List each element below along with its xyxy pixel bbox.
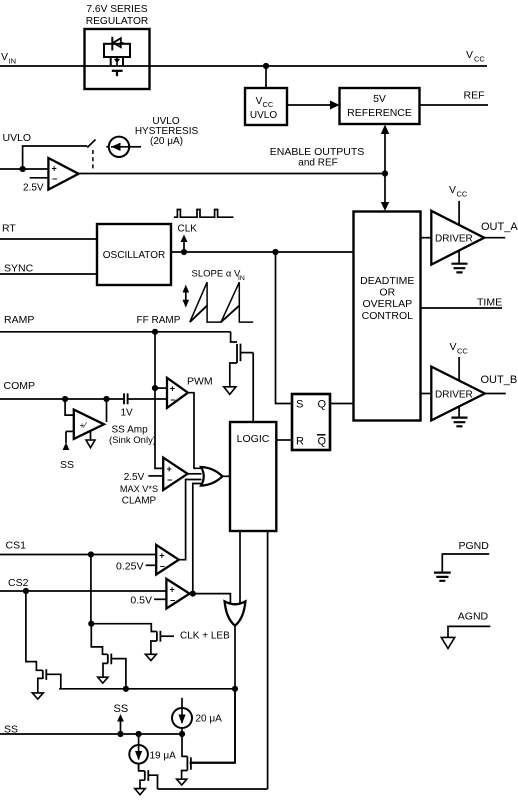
comparator U15 (0.5V): [166, 579, 189, 609]
comparator U8 (2.5V max clamp): [163, 458, 187, 490]
label: UVLO HYSTERESIS (20 uA): [135, 116, 199, 147]
junction: [23, 588, 29, 594]
svg-text:SYNC: SYNC: [4, 263, 34, 275]
label: 2.5V MAX V*S CLAMP: [120, 472, 158, 507]
dashed control line: [92, 150, 94, 171]
svg-text:and REF: and REF: [298, 158, 337, 169]
ground arrow (Q1 source): [224, 387, 236, 395]
svg-text:REFERENCE: REFERENCE: [347, 107, 412, 119]
svg-text:Q: Q: [318, 436, 327, 448]
VCC stub driver B: [458, 357, 460, 381]
wire LOGIC to R: [276, 439, 292, 441]
junction: [136, 731, 142, 737]
VCC UVLO block U2: [245, 88, 287, 125]
svg-text:S: S: [296, 399, 303, 411]
junction: [117, 731, 123, 737]
wire CS2 comp output up to OR: [190, 484, 202, 594]
ground arrow (Q5): [177, 779, 187, 785]
node VCC (top right): [466, 49, 485, 64]
svg-text:2.5V: 2.5V: [23, 182, 44, 193]
wire UVLO input: [0, 168, 48, 170]
wire 2.5V dash: [148, 475, 163, 477]
svg-text:OVERLAP: OVERLAP: [362, 298, 412, 310]
svg-text:SS: SS: [114, 703, 129, 715]
wire SS to lower input: [66, 430, 74, 432]
svg-text:−: −: [170, 395, 175, 405]
driver B U13: [431, 367, 485, 421]
wire VIN/VCC rail: [0, 65, 487, 67]
current source I3 (19uA): [129, 734, 148, 770]
oscillator block U5: [97, 224, 171, 285]
wire CLK to S input: [276, 252, 293, 404]
transistor Q5 (SS clamp FET): [182, 689, 235, 779]
wire LOGIC to OR2 right input: [239, 531, 241, 607]
transistor Q6 (19uA mirror FET): [139, 764, 158, 789]
junction PWM +: [152, 385, 158, 391]
svg-text:AGND: AGND: [458, 611, 489, 623]
wire to CLK+LEB FET: [91, 624, 157, 632]
wire PWM output to OR gate: [188, 393, 202, 469]
junction: [272, 249, 278, 255]
node VCC (driver A): [449, 184, 468, 199]
svg-text:R: R: [296, 436, 304, 448]
or-gate G1: [201, 467, 222, 486]
wire TIME: [421, 307, 503, 309]
svg-text:CLK + LEB: CLK + LEB: [180, 630, 230, 641]
ground arrow (Q2): [145, 654, 156, 660]
svg-text:UVLO: UVLO: [3, 132, 32, 144]
svg-text:CS2: CS2: [8, 577, 29, 589]
svg-text:OR: OR: [379, 287, 395, 299]
junction node on enable line: [382, 170, 388, 176]
sawtooth waveform: [190, 282, 253, 322]
CLK arrow: [183, 241, 185, 252]
wire hysteresis branch: [23, 146, 88, 169]
wire enable vertical (double arrow between 5V REF and deadtime box): [384, 130, 386, 206]
junction: [62, 396, 68, 402]
svg-text:LOGIC: LOGIC: [237, 433, 270, 445]
wire FF RAMP vertical: [155, 332, 163, 469]
svg-text:FF RAMP: FF RAMP: [137, 315, 181, 326]
svg-text:SS: SS: [60, 459, 74, 471]
svg-text:−: −: [52, 174, 57, 184]
svg-text:TIME: TIME: [477, 297, 502, 309]
wire 0.5V dash: [154, 598, 166, 600]
op-amp U7 (SS amp): [65, 399, 106, 439]
wire SYNC: [0, 273, 97, 275]
SS arrow (up): [63, 431, 70, 450]
SS arrow (internal): [117, 714, 124, 734]
label: SS Amp (Sink Only): [109, 425, 156, 447]
svg-text:CLAMP: CLAMP: [122, 496, 157, 507]
svg-text:19 μA: 19 μA: [150, 751, 177, 762]
svg-text:DRIVER: DRIVER: [435, 234, 473, 245]
svg-text:PWM: PWM: [187, 375, 213, 387]
logic block U9: [230, 422, 276, 531]
svg-text:V: V: [466, 49, 473, 61]
ground arrow (Q3): [32, 693, 43, 699]
wire CS1 branch down: [90, 555, 92, 624]
svg-text:CC: CC: [457, 190, 468, 199]
wire AGND: [448, 626, 490, 637]
junction: [181, 249, 187, 255]
svg-text:V: V: [450, 341, 457, 353]
junction: [88, 551, 94, 557]
pass transistor symbol inside regulator: [104, 37, 130, 76]
ground arrow (AGND): [441, 637, 454, 648]
wire OUT_A: [484, 237, 505, 239]
svg-text:V: V: [1, 51, 8, 63]
wire 0.25V dash: [146, 564, 157, 566]
svg-text:+: +: [170, 585, 175, 595]
svg-text:CS1: CS1: [6, 540, 27, 552]
wire ground rail: [59, 688, 235, 690]
svg-text:SS Amp: SS Amp: [112, 425, 149, 436]
svg-text:0.25V: 0.25V: [116, 560, 143, 572]
junction rail / OR2 output: [232, 686, 238, 692]
junction Q4 gate to rail: [123, 686, 129, 692]
svg-text:7.6V SERIES: 7.6V SERIES: [86, 4, 147, 15]
junction FF RAMP: [152, 329, 158, 335]
wire oscillator output to deadtime: [171, 251, 354, 253]
wire LOGIC bottom long vertical: [267, 531, 269, 789]
current source I2 (20uA): [172, 698, 192, 734]
wire bottom rail: [158, 788, 268, 790]
wire to PWM +: [155, 387, 167, 389]
comparator U4 (UVLO 2.5V): [48, 158, 78, 190]
ground (driver A): [451, 251, 467, 273]
VCC stub driver A: [458, 201, 460, 225]
wire RAMP: [0, 331, 231, 333]
svg-text:PGND: PGND: [459, 540, 490, 552]
wire enable output line: [79, 173, 385, 175]
regulator U1 box: [85, 29, 150, 89]
transistor Q2 (CLK+LEB blanking FET): [151, 631, 174, 655]
wire VCC-UVLO to 5V reference (with arrow): [287, 104, 331, 106]
wire Q1 gate to LOGIC: [252, 353, 254, 422]
transistor Q1 (ramp discharge FET): [230, 332, 253, 387]
svg-text:+: +: [167, 464, 172, 474]
ground arrow under SS amp: [86, 432, 95, 448]
svg-text:REF: REF: [464, 90, 485, 102]
junction: [179, 731, 185, 737]
junction mirror node: [88, 621, 94, 627]
wire COMP: [0, 398, 124, 400]
svg-text:UVLO: UVLO: [250, 110, 277, 121]
wire OR2 output down: [190, 626, 236, 763]
capacitor C1 (1V offset): [124, 393, 167, 404]
junction CS2 comp output: [190, 591, 196, 597]
svg-text:OSCILLATOR: OSCILLATOR: [103, 250, 165, 261]
junction: [103, 396, 109, 402]
flip-flop U10: [292, 394, 330, 450]
wire RT: [0, 238, 97, 240]
svg-text:CLK: CLK: [178, 223, 198, 234]
wire REF output: [420, 104, 489, 106]
wire OUT_B: [485, 393, 506, 395]
wire CS2: [0, 590, 166, 592]
svg-text:+: +: [170, 384, 175, 394]
label: 7.6V SERIES REGULATOR: [86, 4, 148, 27]
node VCC (driver B): [450, 341, 469, 356]
driver A U12: [431, 211, 484, 265]
junction node on VCC rail: [263, 63, 269, 69]
ground (driver B): [451, 407, 467, 427]
wire 2.5V to inverting input: [30, 177, 49, 179]
or-gate G2 (pointing down): [225, 601, 246, 625]
svg-text:DEADTIME: DEADTIME: [360, 275, 414, 287]
node VIN: [1, 51, 16, 66]
current source I1 (UVLO hysteresis 20uA): [106, 137, 141, 157]
svg-text:Q: Q: [318, 399, 327, 411]
svg-text:RAMP: RAMP: [4, 314, 34, 326]
svg-text:MAX V*S: MAX V*S: [120, 484, 158, 494]
svg-text:REGULATOR: REGULATOR: [86, 16, 148, 27]
label: SLOPE a VIN: [192, 269, 245, 282]
switch blade: [87, 140, 95, 148]
wire clamp output: [188, 473, 202, 475]
svg-text:IN: IN: [238, 275, 245, 282]
svg-text:20 μA: 20 μA: [196, 714, 223, 725]
svg-text:DRIVER: DRIVER: [435, 390, 473, 401]
transistor Q3 (CS2 pulldown FET): [26, 591, 61, 693]
svg-text:CC: CC: [474, 55, 485, 64]
svg-text:SLOPE α V: SLOPE α V: [192, 269, 241, 280]
svg-text:CC: CC: [457, 347, 468, 356]
svg-text:5V: 5V: [373, 93, 386, 105]
junction: [20, 166, 26, 172]
wire CS1 comp output to OR: [179, 480, 202, 560]
svg-text:−: −: [160, 562, 165, 572]
wire rail to VCC-UVLO: [265, 66, 267, 88]
svg-text:IN: IN: [9, 57, 17, 66]
svg-text:2.5V: 2.5V: [124, 472, 145, 483]
svg-text:0.5V: 0.5V: [130, 594, 152, 606]
5V reference block U3: [340, 88, 420, 124]
svg-text:+: +: [159, 551, 164, 561]
svg-text:COMP: COMP: [4, 380, 36, 392]
clock pulse waveform: [174, 210, 234, 218]
svg-text:CONTROL: CONTROL: [362, 310, 413, 322]
svg-text:−: −: [170, 596, 175, 606]
svg-text:(Sink Only): (Sink Only): [109, 435, 156, 446]
svg-text:ENABLE OUTPUTS: ENABLE OUTPUTS: [270, 146, 365, 158]
svg-text:CC: CC: [263, 100, 274, 109]
wire PGND: [442, 554, 489, 572]
wire SS: [0, 733, 182, 735]
slope double arrow: [183, 285, 190, 308]
ground arrow (Q6): [135, 789, 145, 795]
svg-text:−: −: [167, 475, 172, 485]
svg-text:RT: RT: [2, 223, 16, 235]
comparator U6 (PWM): [167, 378, 188, 408]
wire CS1: [0, 554, 156, 556]
wire Q to deadtime: [330, 403, 354, 405]
deadtime block U11: [354, 212, 421, 421]
wire VIN rail through regulator: [85, 65, 150, 67]
svg-text:+: +: [52, 164, 57, 174]
label: ENABLE OUTPUTS and REF: [270, 146, 365, 169]
comparator U14 (0.25V): [156, 545, 179, 575]
wire deadtime to driver A: [421, 237, 432, 239]
wire OR output to LOGIC: [222, 475, 230, 477]
transistor Q4 (mirror FET): [91, 624, 126, 689]
svg-text:OUT_B: OUT_B: [481, 374, 518, 386]
ground (PGND earth): [434, 573, 451, 581]
wire deadtime to driver B: [421, 393, 432, 395]
svg-text:V: V: [449, 184, 456, 196]
ground arrow (Q4): [98, 677, 108, 683]
svg-text:1V: 1V: [121, 408, 134, 419]
wire CS2 comp output to OR2: [193, 594, 231, 607]
svg-text:(20 μA): (20 μA): [150, 136, 183, 147]
svg-text:OUT_A: OUT_A: [481, 221, 518, 233]
